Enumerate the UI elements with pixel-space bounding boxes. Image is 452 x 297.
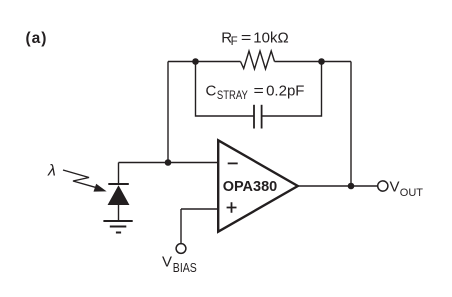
svg-text:F: F bbox=[231, 36, 238, 48]
svg-text:V: V bbox=[390, 179, 400, 196]
svg-text:0.2pF: 0.2pF bbox=[266, 83, 304, 100]
svg-text:BIAS: BIAS bbox=[173, 260, 197, 275]
svg-text:STRAY: STRAY bbox=[217, 88, 248, 102]
svg-text:10kΩ: 10kΩ bbox=[253, 29, 288, 46]
svg-text:OUT: OUT bbox=[400, 187, 424, 199]
svg-text:V: V bbox=[162, 253, 172, 270]
svg-text:C: C bbox=[206, 83, 217, 100]
svg-text:(a): (a) bbox=[26, 30, 48, 47]
svg-text:OPA380: OPA380 bbox=[223, 179, 278, 195]
svg-text:=: = bbox=[254, 83, 265, 100]
svg-text:λ: λ bbox=[47, 163, 56, 180]
svg-text:=: = bbox=[241, 29, 252, 46]
